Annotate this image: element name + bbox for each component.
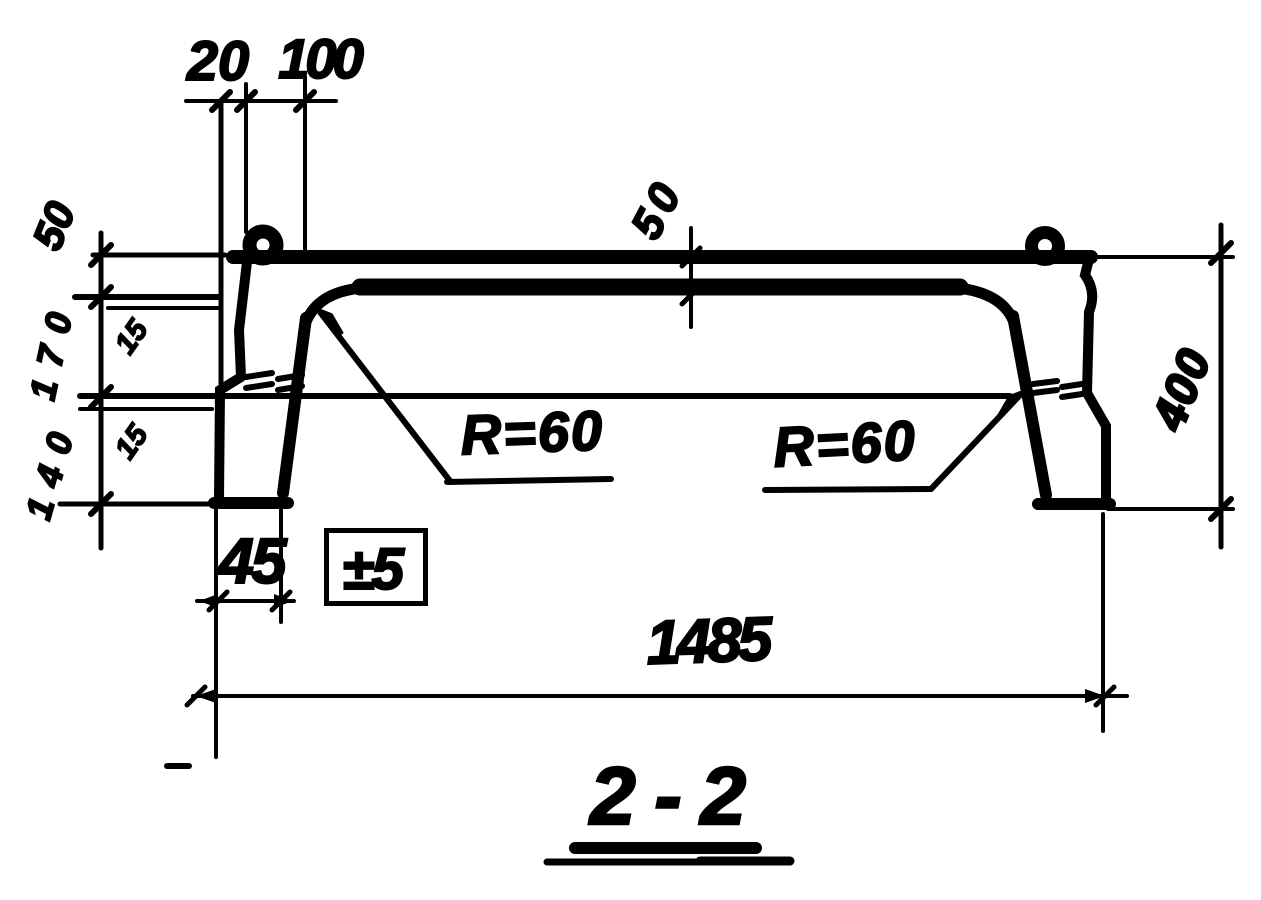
svg-text:170: 170 (21, 295, 82, 403)
svg-text:15: 15 (109, 418, 156, 465)
svg-text:R=60: R=60 (460, 399, 606, 467)
svg-text:140: 140 (17, 414, 85, 523)
svg-text:20: 20 (186, 29, 249, 92)
svg-text:50: 50 (622, 170, 694, 247)
svg-text:15: 15 (109, 313, 156, 360)
svg-text:R=60: R=60 (772, 408, 919, 478)
svg-text:400: 400 (1141, 340, 1221, 437)
svg-text:±5: ±5 (342, 537, 405, 602)
svg-text:45: 45 (216, 525, 288, 597)
svg-text:50: 50 (23, 195, 84, 256)
svg-text:100: 100 (278, 27, 363, 90)
svg-text:1485: 1485 (645, 605, 775, 678)
svg-text:2 - 2: 2 - 2 (588, 751, 745, 842)
